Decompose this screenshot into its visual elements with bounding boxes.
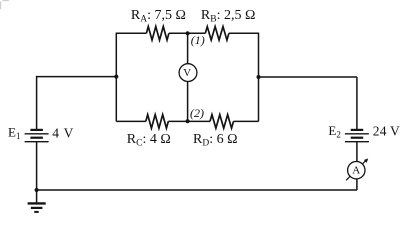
wire bottom-right segment xyxy=(234,120,259,122)
svg-text:RA: 7,5 Ω: RA: 7,5 Ω xyxy=(131,8,186,25)
svg-text:(1): (1) xyxy=(191,33,205,47)
wire voltmeter lower lead xyxy=(187,81,189,121)
svg-text:V: V xyxy=(183,67,191,79)
wire right branch horizontal xyxy=(259,76,357,78)
wire bottom bus xyxy=(37,189,357,191)
svg-text:RD: 6 Ω: RD: 6 Ω xyxy=(193,132,238,149)
wire E1 lower lead xyxy=(36,142,38,190)
junction dot ground node xyxy=(35,188,39,192)
ammeter A with arrow xyxy=(346,158,368,180)
svg-text:24 V: 24 V xyxy=(373,123,400,138)
wire bottom-middle segment xyxy=(168,120,210,122)
voltmeter V between node 1 and node 2 xyxy=(179,64,197,82)
battery E1 xyxy=(25,130,49,142)
wire top-right segment xyxy=(229,32,259,34)
svg-text:RB: 2,5 Ω: RB: 2,5 Ω xyxy=(201,8,255,25)
wire right bridge vertical xyxy=(258,33,260,122)
wire E1 upper lead xyxy=(36,76,38,129)
resistor RA zigzag xyxy=(146,27,169,41)
wire E2 upper lead xyxy=(356,77,358,129)
junction dot right branch xyxy=(257,75,261,79)
wire left bridge vertical xyxy=(115,33,117,122)
resistor RB zigzag xyxy=(205,27,229,41)
svg-text:A: A xyxy=(352,165,360,177)
wire ammeter lower lead xyxy=(356,179,358,190)
wire top-middle segment xyxy=(169,32,205,34)
svg-text:4 V: 4 V xyxy=(52,126,74,141)
junction dot left branch xyxy=(114,75,118,79)
wire left branch horizontal xyxy=(37,76,117,78)
resistor RC zigzag xyxy=(146,115,169,129)
node 1 junction dot xyxy=(186,31,190,35)
svg-text:RC: 4 Ω: RC: 4 Ω xyxy=(127,132,171,149)
node 2 junction dot xyxy=(186,119,190,123)
wire voltmeter upper lead xyxy=(187,33,189,64)
svg-text:(2): (2) xyxy=(190,106,204,120)
wire E2 to ammeter xyxy=(356,142,358,162)
wire bottom-left segment xyxy=(116,120,146,122)
battery E2 xyxy=(345,130,369,142)
ground xyxy=(28,190,46,212)
wire top-left segment xyxy=(116,32,146,34)
resistor RD zigzag xyxy=(210,115,234,129)
